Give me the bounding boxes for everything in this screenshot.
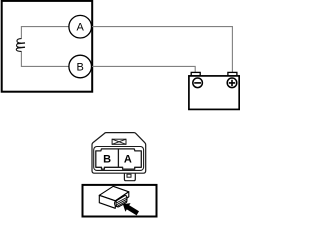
svg-text:B: B [103,154,111,166]
cavity divider [117,150,119,168]
svg-text:A: A [77,22,85,34]
terminal circle B [69,55,92,78]
connector bottom tab [124,173,135,181]
inductor coil L [16,39,25,52]
battery + terminal symbol [227,78,237,88]
wire from coil bottom to terminal B [21,51,69,66]
battery positive post [228,72,237,76]
wire terminal A to battery + [92,27,233,73]
component box (relay/coil unit) [2,1,93,92]
battery body [189,76,239,110]
svg-text:B: B [77,62,84,74]
wire from coil top to terminal A [21,27,69,39]
connector 3D icon: socket [115,196,127,207]
connector inner rim [94,147,144,171]
cavity block [96,149,142,169]
battery negative post [191,72,200,76]
location box [83,185,157,217]
terminal circle A [69,15,92,38]
pointer arrow [123,203,139,215]
connector lock tab (X box) [112,139,126,144]
connector bottom tab hole [127,174,131,177]
battery - terminal symbol [193,78,203,88]
svg-text:A: A [124,154,132,166]
wire terminal B to battery - [92,66,196,72]
connector 3D icon: body [99,186,129,208]
connector shell outline [92,133,146,174]
